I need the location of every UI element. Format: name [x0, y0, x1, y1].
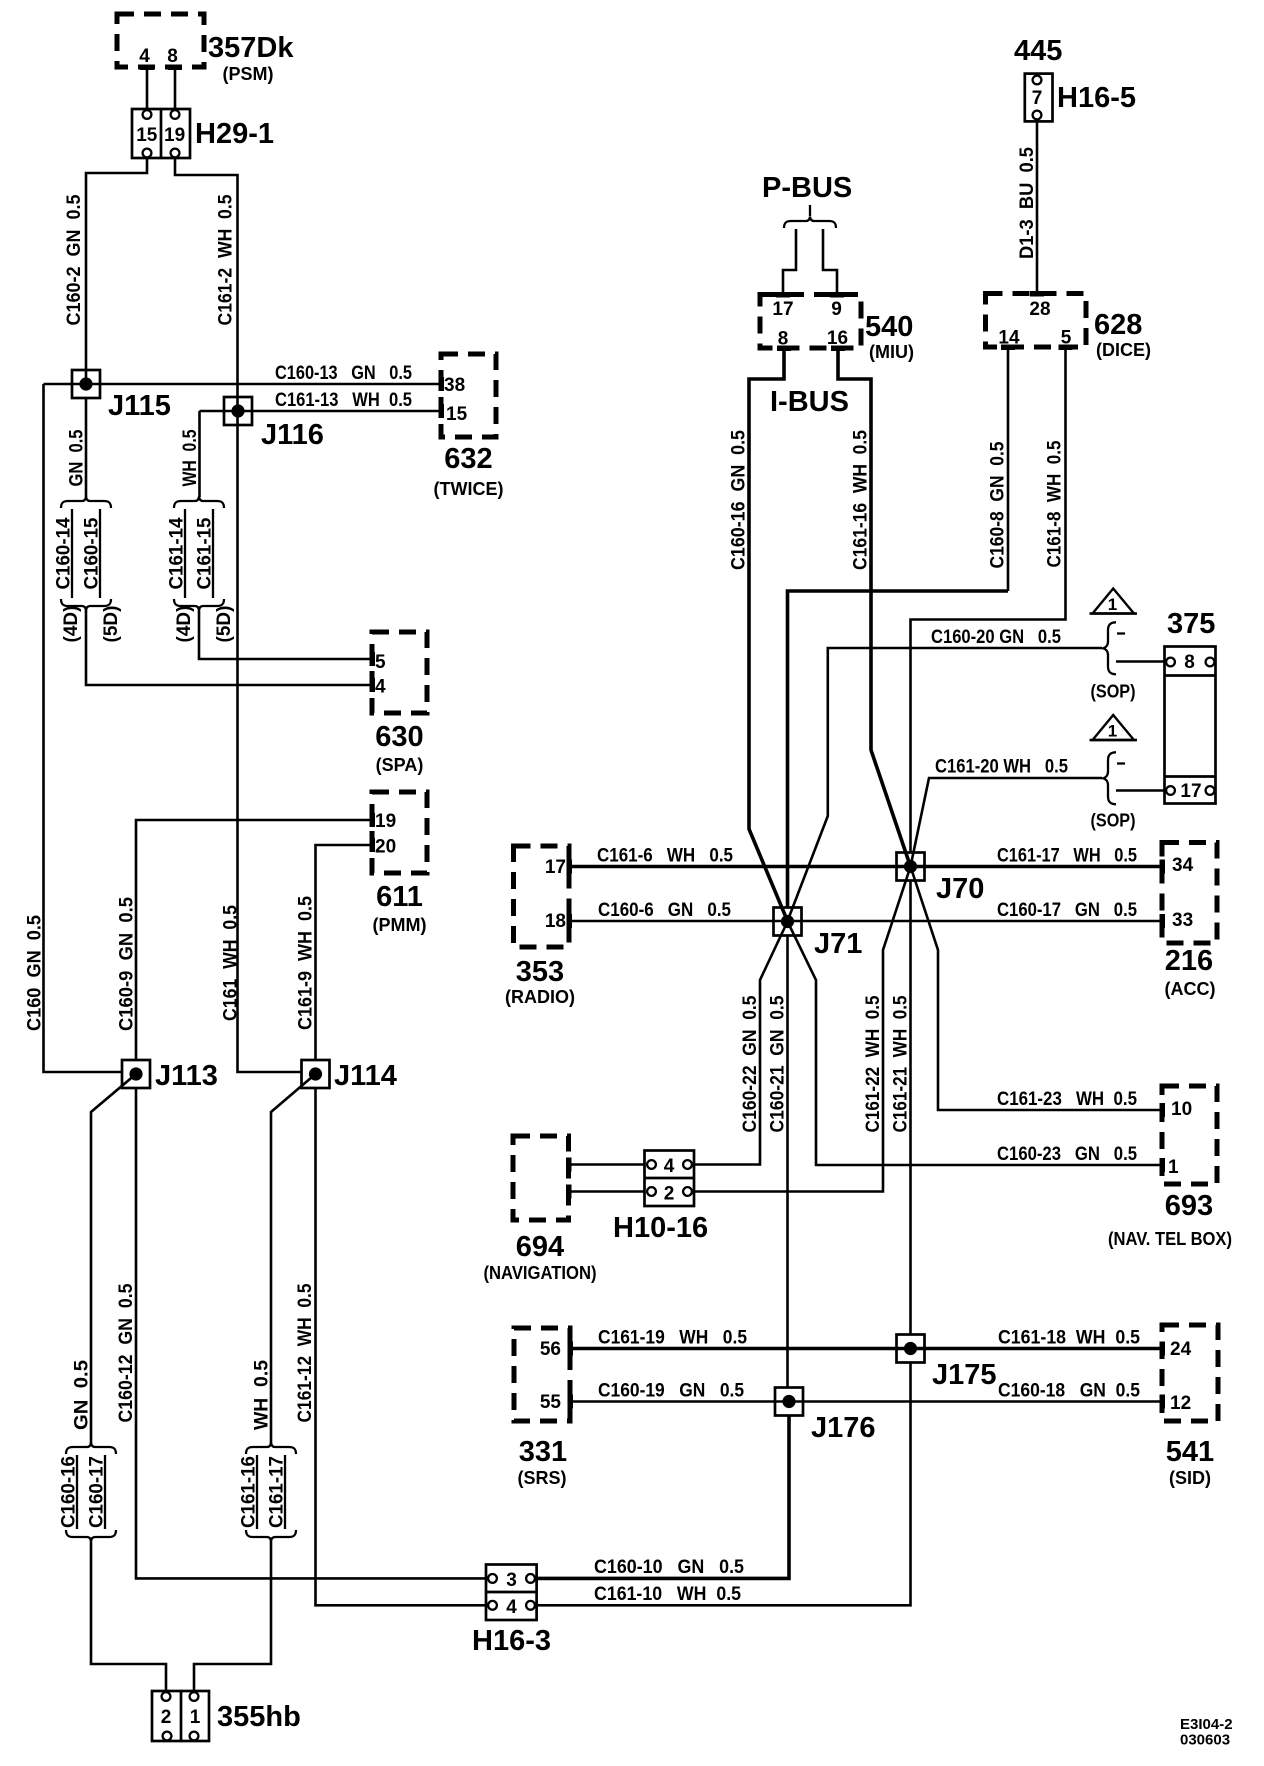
svg-text:5: 5 — [1061, 328, 1072, 349]
connector 540 (MIU) — [760, 292, 914, 362]
svg-text:GN 0.5: GN 0.5 — [72, 1360, 93, 1430]
wire WH (J116 down to variant splice) — [180, 411, 201, 497]
wire C161-19 WH (331 pin 56 to J175) — [570, 1328, 911, 1349]
svg-text:628: 628 — [1094, 309, 1142, 341]
wire 357Dk pin 4 to H29-1 pin 15 — [146, 67, 149, 110]
svg-text:WH 0.5: WH 0.5 — [180, 429, 201, 486]
connector H16-5 (445) — [1014, 35, 1136, 121]
svg-text:17: 17 — [1180, 781, 1201, 802]
svg-text:375: 375 — [1167, 608, 1215, 640]
svg-text:12: 12 — [1170, 1393, 1191, 1414]
svg-text:GN 0.5: GN 0.5 — [67, 429, 88, 486]
svg-text:3: 3 — [506, 1570, 517, 1591]
svg-text:1: 1 — [1168, 1157, 1179, 1178]
svg-text:(SRS): (SRS) — [518, 1468, 567, 1488]
svg-text:7: 7 — [1032, 88, 1043, 109]
connector 375 — [1165, 608, 1216, 804]
splice variant C160-14 / C160-15 (4D/5D) — [54, 497, 123, 643]
label I-BUS — [770, 386, 849, 418]
svg-text:C160 GN 0.5: C160 GN 0.5 — [25, 915, 46, 1031]
svg-text:(SPA): (SPA) — [376, 755, 424, 775]
splice J116 — [224, 397, 324, 451]
svg-text:355hb: 355hb — [217, 1701, 301, 1733]
svg-text:C161-17 WH 0.5: C161-17 WH 0.5 — [997, 846, 1137, 867]
wire C160-18 GN (J176 to 541 pin 12) — [789, 1381, 1162, 1402]
wire C160-10 GN (J176 to H16-3 pin 3) — [537, 1416, 789, 1579]
svg-text:C161-2 WH 0.5: C161-2 WH 0.5 — [216, 194, 237, 325]
svg-text:H16-3: H16-3 — [472, 1625, 551, 1657]
svg-text:C161-23 WH 0.5: C161-23 WH 0.5 — [997, 1089, 1137, 1110]
svg-text:C160-21 GN 0.5: C160-21 GN 0.5 — [768, 995, 789, 1132]
svg-text:C160-9 GN 0.5: C160-9 GN 0.5 — [117, 897, 138, 1031]
svg-text:H16-5: H16-5 — [1057, 82, 1136, 114]
svg-text:C160-14: C160-14 — [54, 517, 75, 589]
svg-text:540: 540 — [865, 311, 913, 343]
wire WH (J114 diagonal down to variant splice) — [252, 1074, 316, 1443]
svg-text:C160-10 GN 0.5: C160-10 GN 0.5 — [594, 1557, 744, 1578]
note sheet number E3I04-2 030603 — [1180, 1716, 1233, 1749]
svg-text:611: 611 — [376, 881, 423, 913]
connector 331 (SRS) — [514, 1328, 573, 1488]
svg-text:D1-3 BU 0.5: D1-3 BU 0.5 — [1017, 147, 1038, 259]
connector 628 (DICE) — [986, 291, 1152, 360]
svg-text:541: 541 — [1166, 1436, 1214, 1468]
svg-text:(DICE): (DICE) — [1096, 340, 1151, 360]
wire C161-10 WH (J175 to H16-3 pin 4) — [537, 1363, 911, 1606]
svg-text:C161-18 WH 0.5: C161-18 WH 0.5 — [998, 1328, 1140, 1349]
wire C161-9 WH (611 pin 20 to J114) — [296, 845, 373, 1061]
label P-BUS with brace — [762, 172, 852, 228]
svg-text:17: 17 — [772, 299, 793, 320]
wire WH to 355hb pin 1 — [194, 1542, 271, 1692]
wire C161 WH to 630 pin 5 — [199, 611, 372, 660]
svg-text:4: 4 — [375, 677, 386, 698]
wire C161-18 WH (J175 to 541 pin 24) — [911, 1328, 1163, 1349]
svg-text:2: 2 — [161, 1707, 172, 1728]
svg-text:5: 5 — [375, 652, 386, 673]
wire I-BUS C161-16 WH (540 pin 16 to J70) — [838, 348, 911, 867]
svg-text:34: 34 — [1172, 855, 1194, 876]
svg-text:P-BUS: P-BUS — [762, 172, 852, 204]
wire C161-20 WH (J70 to 375 pin 17) — [911, 757, 1103, 867]
svg-text:C160-17: C160-17 — [87, 1456, 108, 1528]
connector 357Dk (PSM) — [117, 14, 294, 84]
splice variant C160-16 / C160-17 — [59, 1443, 117, 1542]
svg-text:16: 16 — [827, 328, 848, 349]
svg-text:(MIU): (MIU) — [869, 342, 914, 362]
splice J113 — [122, 1060, 218, 1092]
wire 694 to H10-16 pin 2 — [569, 1190, 645, 1193]
connector 632 (TWICE) — [434, 354, 504, 499]
svg-text:55: 55 — [540, 1392, 562, 1413]
svg-text:357Dk: 357Dk — [208, 32, 294, 64]
wire C160 GN (J115 to J113) — [25, 384, 123, 1072]
svg-text:4: 4 — [664, 1156, 675, 1177]
connector 216 (ACC) — [1160, 843, 1218, 1000]
wire GN (J115 down to variant splice) — [67, 398, 88, 497]
wire C160 GN to 630 pin 4 — [86, 611, 372, 686]
connector 694 (NAVIGATION) — [484, 1136, 597, 1283]
svg-text:C161-16: C161-16 — [239, 1456, 260, 1528]
shield note SOP lower (triangle 1) — [1090, 715, 1167, 831]
svg-text:J116: J116 — [261, 419, 324, 451]
wire C161-17 WH (J70 to 216 pin 34) — [911, 846, 1163, 867]
svg-text:(4D): (4D) — [61, 606, 82, 643]
wire C160-23 GN (J71 to 693 pin 1) — [788, 922, 1163, 1166]
svg-text:28: 28 — [1029, 299, 1050, 320]
svg-text:C161-12 WH 0.5: C161-12 WH 0.5 — [295, 1283, 316, 1422]
svg-text:(SOP): (SOP) — [1091, 811, 1136, 831]
connector 611 (PMM) — [370, 792, 428, 935]
connector H10-16 — [613, 1151, 708, 1245]
connector 355hb — [152, 1691, 301, 1741]
svg-text:I-BUS: I-BUS — [770, 386, 849, 418]
svg-text:C160-6 GN 0.5: C160-6 GN 0.5 — [598, 900, 731, 921]
wire C160-17 GN (J71 to 216 pin 33) — [788, 900, 1163, 921]
wire C160-13 GN (J115 to 632 pin 38) — [44, 363, 442, 384]
svg-text:632: 632 — [444, 443, 492, 475]
connector 541 (SID) — [1160, 1325, 1219, 1488]
svg-text:C160-18 GN 0.5: C160-18 GN 0.5 — [998, 1381, 1140, 1402]
wire C161-6 WH (353 pin 17 to J70) — [569, 846, 911, 867]
svg-text:19: 19 — [164, 125, 185, 146]
wire C161-22 WH (J70 to H10-16 pin 2) — [694, 867, 911, 1192]
connector 353 (RADIO) — [505, 846, 575, 1007]
splice J115 — [72, 370, 171, 422]
svg-text:H10-16: H10-16 — [613, 1212, 708, 1244]
svg-text:8: 8 — [1184, 652, 1195, 673]
svg-text:331: 331 — [519, 1436, 567, 1468]
splice J71 — [774, 908, 863, 961]
svg-text:C161-10 WH 0.5: C161-10 WH 0.5 — [594, 1584, 741, 1605]
wire C161-13 WH (J116 to 632 pin 15) — [200, 390, 442, 411]
svg-text:J176: J176 — [811, 1412, 876, 1444]
svg-text:J70: J70 — [936, 873, 984, 905]
svg-text:J115: J115 — [108, 390, 171, 422]
wire 694 to H10-16 pin 4 — [569, 1163, 645, 1166]
wire P-BUS to 540 pin 17 — [783, 229, 796, 295]
svg-text:(NAVIGATION): (NAVIGATION) — [484, 1263, 597, 1283]
svg-text:17: 17 — [545, 857, 566, 878]
wire C160-22 GN (J71 to H10-16 pin 4) — [694, 922, 788, 1165]
svg-text:8: 8 — [167, 46, 178, 67]
svg-text:C161-13 WH 0.5: C161-13 WH 0.5 — [275, 390, 412, 411]
svg-text:4: 4 — [139, 46, 150, 67]
svg-text:C160-20 GN 0.5: C160-20 GN 0.5 — [931, 627, 1061, 648]
svg-text:694: 694 — [516, 1231, 564, 1263]
svg-text:J71: J71 — [814, 928, 862, 960]
splice J70 — [897, 853, 985, 906]
wire C160-2 GN (H29-1.15 to J115) — [64, 158, 147, 384]
wire P-BUS to 540 pin 9 — [823, 229, 837, 295]
wire C160-19 GN (331 pin 55 to J176) — [570, 1381, 789, 1402]
svg-text:(SID): (SID) — [1169, 1468, 1211, 1488]
svg-text:C161-19 WH 0.5: C161-19 WH 0.5 — [598, 1328, 747, 1349]
svg-text:(TWICE): (TWICE) — [434, 479, 504, 499]
svg-text:C160-15: C160-15 — [82, 517, 103, 589]
wire C161-21 WH (J70 to J175) — [891, 881, 912, 1334]
wire I-BUS C160-16 GN (540 pin 8 to J71) — [729, 348, 788, 921]
svg-text:C160-16: C160-16 — [59, 1456, 80, 1528]
svg-text:693: 693 — [1165, 1190, 1213, 1222]
svg-text:J175: J175 — [932, 1359, 997, 1391]
wire GN (J113 diagonal down to variant splice) — [72, 1074, 137, 1443]
svg-text:14: 14 — [998, 328, 1020, 349]
wire C160-9 GN (611 pin 19 to J113) — [117, 820, 373, 1061]
svg-text:C161-16 WH 0.5: C161-16 WH 0.5 — [851, 430, 872, 570]
splice J114 — [302, 1060, 397, 1092]
svg-text:38: 38 — [444, 375, 465, 396]
svg-text:353: 353 — [516, 956, 564, 988]
splice variant C161-14 / C161-15 (4D/5D) — [167, 497, 236, 643]
svg-text:C160-22 GN 0.5: C160-22 GN 0.5 — [740, 995, 761, 1132]
wire C161-23 WH (J70 to 693 pin 10) — [911, 867, 1163, 1111]
svg-text:C160-17 GN 0.5: C160-17 GN 0.5 — [997, 900, 1137, 921]
svg-text:(RADIO): (RADIO) — [505, 987, 575, 1007]
svg-text:(SOP): (SOP) — [1091, 682, 1136, 702]
wire C161-12 WH (J114 to H16-3 pin 4) — [295, 1088, 486, 1605]
svg-text:WH 0.5: WH 0.5 — [252, 1360, 273, 1430]
svg-text:1: 1 — [1108, 722, 1117, 741]
wire C161-2 WH (H29-1.19 to J116 to J114) — [175, 158, 302, 1072]
svg-text:C161-21 WH 0.5: C161-21 WH 0.5 — [891, 995, 912, 1132]
svg-text:18: 18 — [545, 911, 566, 932]
svg-text:C161-15: C161-15 — [195, 517, 216, 589]
svg-text:C161-9 WH 0.5: C161-9 WH 0.5 — [296, 896, 317, 1030]
wire C161-8 WH (628 pin 5 to J70) — [911, 347, 1066, 853]
svg-text:24: 24 — [1170, 1339, 1192, 1360]
svg-text:J114: J114 — [334, 1060, 397, 1092]
svg-text:56: 56 — [540, 1339, 561, 1360]
svg-text:C161-6 WH 0.5: C161-6 WH 0.5 — [597, 846, 733, 867]
wire 357Dk pin 8 to H29-1 pin 19 — [174, 67, 177, 110]
svg-text:20: 20 — [375, 837, 396, 858]
svg-text:1: 1 — [190, 1707, 201, 1728]
svg-text:(4D): (4D) — [174, 606, 195, 643]
connector 630 (SPA) — [370, 632, 428, 775]
svg-text:C160-13 GN 0.5: C160-13 GN 0.5 — [275, 363, 412, 384]
svg-text:15: 15 — [446, 404, 468, 425]
connector 693 (NAV. TEL BOX) — [1108, 1086, 1232, 1249]
svg-text:C160-2 GN 0.5: C160-2 GN 0.5 — [64, 194, 85, 325]
splice variant C161-16 / C161-17 — [239, 1443, 297, 1542]
svg-text:H29-1: H29-1 — [195, 118, 274, 150]
svg-text:C160-23 GN 0.5: C160-23 GN 0.5 — [997, 1144, 1137, 1165]
svg-text:1: 1 — [1108, 595, 1117, 614]
svg-text:(ACC): (ACC) — [1165, 979, 1216, 999]
svg-text:C160-12 GN 0.5: C160-12 GN 0.5 — [116, 1283, 137, 1422]
svg-text:C161-17: C161-17 — [267, 1456, 288, 1528]
svg-text:C161-14: C161-14 — [167, 517, 188, 589]
wire C160-6 GN (353 pin 18 to J71) — [569, 900, 788, 921]
svg-text:C160-8 GN 0.5: C160-8 GN 0.5 — [988, 441, 1009, 568]
svg-text:J113: J113 — [155, 1060, 218, 1092]
svg-text:19: 19 — [375, 811, 396, 832]
wire C160-8 GN (628 pin 14 to J71) — [788, 347, 1009, 907]
svg-text:10: 10 — [1171, 1099, 1192, 1120]
svg-text:33: 33 — [1172, 910, 1193, 931]
connector H29-1 — [132, 109, 274, 158]
svg-text:C160-16 GN 0.5: C160-16 GN 0.5 — [729, 430, 750, 570]
svg-text:E3I04-2: E3I04-2 — [1180, 1716, 1233, 1733]
svg-text:216: 216 — [1165, 945, 1213, 977]
svg-text:C161-22 WH 0.5: C161-22 WH 0.5 — [863, 995, 884, 1132]
svg-text:445: 445 — [1014, 35, 1062, 67]
svg-text:(NAV. TEL BOX): (NAV. TEL BOX) — [1108, 1229, 1232, 1249]
wire C160-12 GN (J113 to H16-3 pin 3) — [116, 1088, 486, 1578]
splice J176 — [775, 1388, 876, 1445]
svg-text:(5D): (5D) — [101, 606, 122, 643]
wire C160-20 GN (J71 to 375 pin 8) — [788, 627, 1103, 921]
svg-text:C161 WH 0.5: C161 WH 0.5 — [221, 905, 242, 1021]
svg-text:8: 8 — [778, 329, 789, 350]
splice J175 — [897, 1335, 997, 1392]
svg-text:(PMM): (PMM) — [373, 915, 427, 935]
svg-text:C160-19 GN 0.5: C160-19 GN 0.5 — [598, 1381, 744, 1402]
connector H16-3 — [472, 1565, 551, 1658]
wire GN to 355hb pin 2 — [91, 1542, 166, 1692]
svg-text:C161-8 WH 0.5: C161-8 WH 0.5 — [1045, 440, 1066, 567]
svg-text:(5D): (5D) — [214, 606, 235, 643]
svg-text:630: 630 — [375, 721, 423, 753]
svg-text:C161-20 WH 0.5: C161-20 WH 0.5 — [935, 757, 1068, 778]
svg-text:9: 9 — [831, 299, 842, 320]
wire C160-21 GN (J71 to J176) — [768, 936, 789, 1388]
svg-text:(PSM): (PSM) — [223, 64, 274, 84]
svg-text:2: 2 — [664, 1184, 675, 1205]
shield note SOP upper (triangle 1) — [1090, 589, 1167, 702]
svg-text:030603: 030603 — [1180, 1732, 1230, 1749]
svg-text:15: 15 — [136, 125, 158, 146]
wire D1-3 BU (H16-5 to 628 pin 28) — [1017, 121, 1038, 293]
svg-text:4: 4 — [506, 1597, 517, 1618]
